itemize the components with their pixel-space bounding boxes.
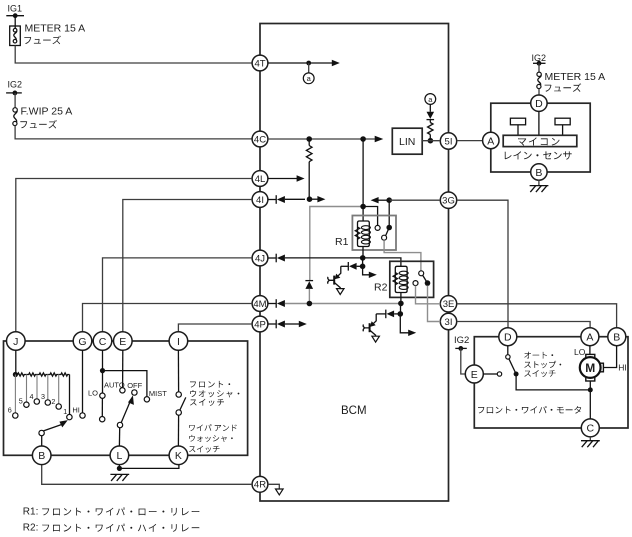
wire E down to AUTO contact (120, 350, 125, 393)
transistor Q2 (363, 314, 376, 336)
label fuse jp IG1 (jp outline) (24, 36, 61, 45)
svg-text:K: K (175, 450, 182, 462)
svg-text:3: 3 (41, 392, 45, 401)
transistor Q1 (328, 266, 341, 288)
diode (4I row) (268, 195, 305, 204)
wire 4J node down (362, 258, 364, 266)
pin E (motor) (465, 365, 483, 383)
node IG1 terminal tick (6, 15, 24, 17)
svg-text:5I: 5I (445, 136, 453, 147)
pin D (rain sensor) (531, 95, 547, 111)
label front washer line2 (jp outline) (190, 390, 239, 397)
internal arrow (4J node) (363, 266, 377, 278)
ground marker Q2 (open triangle) (372, 336, 380, 342)
wire B to ground (538, 180, 540, 185)
pin C (motor) (581, 419, 599, 437)
svg-text:6: 6 (8, 405, 12, 414)
wire B up to arm pivot (39, 430, 44, 446)
wire IG2 to fuse (14, 93, 16, 108)
label fuse jp F.WIP (jp outline) (20, 120, 57, 129)
wire R1 coil bottom to 4J node (362, 247, 364, 258)
diode (up, to 4M row) (305, 281, 313, 301)
svg-text:4L: 4L (255, 174, 266, 185)
pin B (motor) (608, 328, 626, 346)
junction IG2 motor (458, 346, 463, 351)
tap 3 (45, 375, 50, 406)
contact OFF (132, 390, 137, 395)
svg-text:L: L (116, 450, 122, 462)
wire J down (15, 350, 17, 374)
pin A (rain sensor) (483, 132, 499, 148)
wire B to motor HI brush (603, 346, 616, 368)
svg-text:4: 4 (30, 392, 34, 401)
wire 4M node down (400, 303, 402, 314)
resistor (a chain) (428, 123, 433, 135)
label legend R1 jp (jp outline) (42, 507, 199, 515)
wiper switch arm with arrow (44, 420, 68, 431)
svg-text:4P: 4P (254, 319, 266, 330)
wire K to L ground (119, 465, 178, 469)
label auto stop line2 (jp outline) (524, 361, 561, 368)
junction 4I row (307, 196, 313, 202)
wire washer contact to K (177, 415, 179, 446)
svg-text:2: 2 (51, 397, 55, 406)
diode D (a to 5I line) (427, 112, 435, 123)
pin K (169, 446, 188, 465)
wire C to ground (589, 437, 591, 441)
svg-text:IG2: IG2 (454, 335, 469, 346)
svg-text:5: 5 (19, 397, 23, 406)
junction R2 coil at 4M row (398, 301, 404, 307)
relay R1 arm (386, 228, 390, 236)
relay R1 arm pivot (386, 225, 392, 231)
motor M1 (580, 354, 604, 381)
junction motor low (588, 387, 593, 392)
junction IG1 (13, 13, 18, 18)
pin L (110, 446, 129, 465)
svg-text:B: B (38, 450, 45, 462)
junction 4C row right (360, 136, 366, 142)
junction 3G row (386, 197, 392, 203)
pin C (93, 332, 112, 351)
svg-text:OFF: OFF (127, 381, 142, 390)
pin 4C (252, 131, 268, 147)
pin 4L (252, 171, 268, 187)
node IG2 terminal tick (455, 347, 467, 349)
arrow 4P internal (299, 321, 307, 327)
relay R1 contact 2 (382, 235, 387, 240)
svg-text:A: A (586, 332, 593, 344)
wire 5I to rain sensor A (457, 140, 483, 142)
wire 3G to motor D (457, 200, 508, 328)
svg-text:M: M (585, 361, 595, 375)
wire LO contact to position contact (100, 398, 105, 422)
pin 4R (252, 476, 268, 492)
auto-stop switch arm (509, 359, 516, 374)
svg-text:R1:: R1: (23, 506, 39, 517)
arrow 4I internal (310, 196, 326, 202)
junction at LIN output (428, 138, 434, 144)
wire 4L to J column (16, 179, 252, 332)
pin 3G (440, 192, 456, 208)
svg-text:A: A (487, 135, 494, 147)
wire to node a (308, 63, 310, 73)
rain sensor element 1 (510, 118, 525, 135)
svg-text:B: B (535, 167, 542, 179)
junction auto-stop arm (514, 372, 519, 377)
pin I (169, 332, 188, 351)
relay R1 fixed contact 1 (375, 225, 380, 230)
wire C down (102, 350, 104, 370)
pin E (114, 332, 133, 351)
BCM box (260, 24, 449, 502)
label auto stop line1 (jp outline) (524, 352, 553, 359)
tap 5 (24, 375, 29, 408)
svg-text:LIN: LIN (399, 136, 415, 148)
wire LIN to 5I (422, 140, 440, 142)
svg-text:METER 15 A: METER 15 A (25, 23, 86, 35)
node IG2 terminal tick (533, 62, 546, 64)
wire D down (507, 346, 509, 355)
relay R2 coil (L with R parallel) (393, 266, 408, 292)
svg-text:4J: 4J (255, 253, 265, 264)
wire 4R to ground arrow (268, 484, 279, 489)
svg-text:R2:: R2: (23, 523, 39, 534)
selector arm with arrow (121, 395, 134, 422)
wire IG2 to fuse (538, 63, 540, 72)
rain sensor box (491, 103, 590, 172)
relay R1 box (352, 216, 396, 251)
junction C branch (100, 368, 105, 373)
label wiper washer sw line1 (jp outline) (189, 424, 237, 431)
diode (4P row) (268, 320, 300, 329)
wire 4T internal with arrow (268, 60, 340, 66)
wire 4J node to R2 coil top (363, 258, 401, 266)
svg-text:4I: 4I (256, 195, 264, 206)
tap 1 (ladder end) (67, 375, 72, 420)
diode (4J row) (268, 254, 360, 263)
wire arm to motor low node (516, 374, 590, 390)
svg-text:R1: R1 (335, 236, 349, 248)
pin 4T (252, 55, 268, 71)
svg-text:4M: 4M (253, 299, 266, 310)
svg-text:4C: 4C (254, 134, 266, 145)
diode (Q1 emitter) (341, 262, 360, 271)
pin 4M (252, 296, 268, 312)
resistor ladder (intermittent volume) (15, 373, 69, 376)
label front wiper motor name (jp outline) (478, 406, 581, 414)
wire 4M to G column (83, 304, 253, 332)
wire 3G internal with arrow (371, 197, 390, 203)
wire fuse to pin 4T (15, 46, 252, 64)
label wiper washer sw line2 (jp outline) (189, 435, 233, 442)
junction 4J node (360, 255, 366, 261)
pin 3E (440, 296, 456, 312)
wire R2 arm to 3I (428, 286, 441, 322)
wire 3G to R1 arm (388, 200, 390, 227)
svg-text:E: E (471, 369, 478, 381)
fuse METER 15 A (rain sensor, contact symbol) (537, 72, 541, 88)
resistor R (4C to 4I row) (306, 139, 312, 199)
wire D to microcomputer (538, 111, 540, 135)
svg-text:4T: 4T (254, 58, 265, 69)
ground marker 4R (open triangle) (276, 489, 284, 495)
wiper motor box (474, 337, 628, 428)
relay R2 box (390, 261, 434, 297)
svg-text:1: 1 (63, 407, 67, 416)
label rain sensor name (jp outline) (505, 151, 572, 159)
LIN module U1 (392, 128, 422, 154)
ground (switch L) (110, 474, 129, 481)
wire C branch to MIST contact (103, 371, 150, 402)
contact (D side) (506, 355, 510, 359)
ground (motor C) (581, 441, 600, 448)
wire node to R1 fixed contact (363, 207, 378, 226)
wire 3E to motor B (457, 304, 617, 329)
label fuse jp rain (jp outline) (545, 83, 582, 92)
svg-text:LO: LO (88, 388, 98, 397)
fuse F.WIP 25 A (contact symbol) (13, 108, 18, 126)
svg-text:HI: HI (72, 406, 80, 415)
svg-text:E: E (119, 336, 126, 348)
relay R1 coil (L with R parallel) (355, 221, 370, 247)
relay R2 fixed contact 1 (419, 271, 424, 276)
junction on 4T row (306, 61, 311, 66)
wire 4R to B column (42, 465, 252, 485)
svg-text:C: C (99, 336, 107, 348)
node IG2 terminal tick (6, 92, 22, 94)
wire 4J to C column (103, 258, 253, 332)
label auto stop line3 (jp outline) (524, 370, 555, 377)
pin 3I (440, 313, 456, 329)
diode (Q2 emitter) (376, 310, 398, 319)
rain sensor element 2 (555, 118, 570, 135)
node a (1) (303, 73, 314, 84)
wire R2 coil bottom to 4M row (400, 293, 402, 304)
svg-text:4R: 4R (254, 480, 266, 491)
pin B (switch) (32, 446, 51, 465)
wire A to motor LO brush (589, 346, 591, 355)
relay R2 arm (423, 276, 428, 284)
label wiper washer sw line3 (jp outline) (189, 446, 220, 453)
svg-text:D: D (535, 98, 543, 110)
svg-text:AUTO: AUTO (104, 380, 125, 389)
label front washer line3 (jp outline) (190, 399, 224, 406)
wire 4C internal (268, 138, 375, 140)
wire G down to HI contact (80, 350, 85, 418)
pin A (motor) (581, 328, 599, 346)
svg-text:LO: LO (574, 347, 586, 357)
wire supply branch (gray) (310, 207, 361, 281)
wire node down to R1 coil (362, 207, 364, 222)
pin 4I (252, 192, 268, 208)
wire R2 contact2 to 3E (416, 286, 441, 304)
wire IG1 to fuse (14, 16, 16, 29)
wire R1 contact2 to R2 contact (384, 240, 421, 271)
pin G (73, 332, 92, 351)
pin 4J (252, 250, 268, 266)
wire 4I to E column (123, 200, 252, 332)
junction 4I-diode at 4M row (307, 301, 313, 307)
svg-text:HI: HI (618, 363, 627, 373)
internal arrow (Q2 node) (400, 314, 416, 336)
selector arm pivot (117, 422, 122, 427)
svg-text:IG2: IG2 (8, 79, 23, 89)
relay R2 contact 2 (413, 281, 418, 286)
tap 4 (34, 375, 39, 405)
diode (4M row) (268, 299, 399, 308)
ground (rain sensor B) (530, 186, 549, 193)
pin D (motor) (499, 328, 517, 346)
tap 6 (13, 375, 18, 419)
wire 4P to I column (178, 324, 252, 332)
svg-text:3I: 3I (445, 317, 453, 328)
junction ladder (13, 372, 18, 377)
junction IG2 (13, 91, 18, 96)
svg-text:R2: R2 (374, 281, 388, 293)
wire pivot to L (118, 428, 120, 446)
label legend R2 jp (jp outline) (42, 524, 199, 532)
tap 2 (56, 375, 61, 410)
pin B (rain sensor) (531, 164, 547, 180)
wire 3G row to pin (389, 199, 440, 201)
ground marker Q1 (open triangle) (337, 289, 345, 295)
svg-text:F.WIP 25 A: F.WIP 25 A (21, 106, 73, 118)
svg-text:G: G (78, 336, 86, 348)
wire resistor to 5I node (429, 135, 431, 141)
wire fuse to D (538, 89, 540, 95)
svg-text:D: D (504, 332, 512, 344)
wire 4L internal with arrow (268, 175, 305, 181)
wire motor to C (589, 381, 591, 419)
svg-text:J: J (13, 336, 18, 348)
wire C to LO contact (100, 371, 105, 399)
junction L ground (117, 466, 122, 471)
junction Q2 node (398, 311, 404, 317)
microcomputer box (503, 135, 577, 146)
wire a to diode (429, 104, 431, 111)
fuse METER 15 A (cartridge symbol) (10, 26, 21, 46)
wire 3I to motor A (457, 322, 590, 329)
wire fuse to pin 4C (15, 126, 252, 139)
wiper and washer switch box (4, 341, 248, 455)
relay R2 arm pivot (425, 280, 431, 286)
label microcomputer (jp outline) (518, 137, 560, 145)
svg-text:METER 15 A: METER 15 A (545, 71, 606, 83)
node a (2) (425, 94, 436, 105)
wire L to ground (118, 465, 120, 469)
svg-text:B: B (613, 332, 620, 344)
svg-text:I: I (177, 336, 180, 348)
contact (E side) (497, 372, 501, 376)
wire 4C drop to R1 node (362, 139, 364, 207)
arrow into LIN (375, 136, 384, 143)
pin J (7, 332, 26, 351)
washer switch arm (180, 397, 186, 410)
svg-text:C: C (587, 423, 595, 435)
pin 4P (252, 316, 268, 332)
svg-text:3G: 3G (442, 196, 455, 207)
svg-text:IG1: IG1 (8, 4, 23, 14)
pin 5I (440, 133, 456, 149)
svg-text:MIST: MIST (149, 389, 167, 398)
label front washer line1 (jp outline) (190, 381, 230, 388)
wire IG2 to motor E (461, 348, 465, 374)
wire E to contact (483, 373, 497, 375)
junction 4C row left (306, 136, 312, 142)
junction IG2 rain (537, 61, 542, 66)
washer switch lower contact (176, 410, 181, 415)
wire I down to washer contact (176, 350, 181, 397)
svg-text:BCM: BCM (341, 405, 367, 417)
junction R1 supply node (360, 204, 366, 210)
svg-text:3E: 3E (443, 299, 455, 310)
junction Q1 node (360, 264, 366, 270)
